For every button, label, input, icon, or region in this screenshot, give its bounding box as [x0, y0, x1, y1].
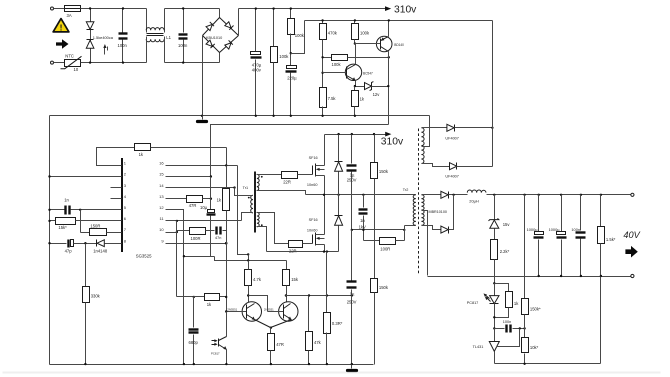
wire: [54, 8, 65, 10]
svg-text:330k: 330k: [91, 294, 101, 299]
svg-text:100k: 100k: [332, 62, 342, 67]
svg-text:20µH: 20µH: [469, 199, 479, 204]
svg-text:4.7k: 4.7k: [253, 277, 262, 282]
capacitor 1000u (first): [538, 195, 540, 232]
svg-text:150k: 150k: [379, 169, 389, 174]
diode 1n4148: [96, 240, 98, 247]
svg-text:0.3R*: 0.3R*: [332, 321, 343, 326]
NTC thermistor 10: [65, 60, 81, 67]
svg-text:47p: 47p: [65, 248, 73, 253]
transistor 2N5551 right: [279, 302, 298, 321]
wire DC plus to rail: [238, 9, 240, 36]
capacitor 10u: [210, 177, 212, 210]
diode top (across upper MOSFET): [338, 135, 340, 162]
resistor 1k (aux): [354, 87, 356, 91]
gate resistor 22R bottom: [257, 213, 289, 244]
wire: [81, 8, 147, 10]
capacitor 100n feedback: [495, 328, 505, 330]
output bottom rail 0V: [428, 276, 631, 278]
pin11 branch down: [176, 221, 178, 297]
resistor 150k lower: [371, 279, 378, 293]
terminal input bottom: [51, 61, 54, 64]
resistor 330k: [85, 244, 87, 287]
svg-text:100n: 100n: [118, 43, 128, 48]
zener 12v: [355, 86, 365, 88]
pin14 row to Tr1: [166, 187, 235, 189]
svg-text:1000µ: 1000µ: [549, 227, 561, 232]
resistor 47k: [308, 296, 310, 332]
svg-text:SG3525: SG3525: [136, 253, 152, 258]
capacitor 1u 250V bottom: [351, 230, 353, 281]
svg-text:100n: 100n: [503, 320, 511, 324]
svg-text:NTC: NTC: [65, 54, 74, 59]
310v top rail: [239, 8, 386, 10]
svg-text:3A: 3A: [67, 13, 72, 18]
resistor 100k (vertical left): [273, 9, 275, 47]
feedback node: [493, 282, 495, 284]
svg-text:1n: 1n: [64, 198, 69, 203]
resistor 150k*: [522, 299, 529, 315]
wire node to sub-rail: [291, 21, 305, 54]
svg-text:10: 10: [159, 227, 164, 232]
svg-text:100k: 100k: [360, 31, 370, 36]
svg-text:100R: 100R: [380, 247, 390, 252]
resistor 47R (pin13): [166, 198, 187, 200]
midpoint row: [306, 194, 416, 196]
Tr2 primary winding: [413, 195, 416, 226]
resistor 15k: [286, 261, 288, 270]
opto LED PC817: [494, 284, 496, 296]
svg-text:47R: 47R: [189, 203, 197, 208]
snubber resistor 100R: [364, 240, 380, 242]
ground bar primary: [202, 116, 204, 120]
svg-text:2.2k*: 2.2k*: [500, 249, 510, 254]
common emitter to 47R: [270, 327, 272, 329]
pin11 row to Tr1 primary bottom: [166, 220, 242, 222]
svg-text:100k: 100k: [279, 54, 289, 59]
resistor 4.7k: [245, 270, 252, 286]
svg-text:7.5k: 7.5k: [328, 96, 337, 101]
resistor 2.2k*: [491, 240, 498, 260]
wire: [54, 62, 65, 64]
capacitor 680p: [193, 297, 195, 328]
bottom middle: diff pair supply row: [215, 257, 287, 261]
bridge rectifier KBU1010: [203, 18, 239, 53]
svg-text:!: !: [60, 23, 63, 33]
capacitor 100n output: [580, 195, 582, 231]
primary bottom bus: [50, 364, 374, 366]
svg-text:1n: 1n: [360, 218, 365, 223]
310v sub-rail: [305, 20, 493, 22]
wire: [81, 62, 147, 64]
resistor 0.3R*: [326, 252, 328, 313]
svg-text:15k: 15k: [291, 277, 299, 282]
svg-text:250V: 250V: [347, 178, 357, 183]
svg-text:MBR10100: MBR10100: [429, 210, 447, 214]
svg-text:220µ: 220µ: [287, 75, 297, 80]
svg-text:12: 12: [159, 205, 164, 210]
pin1 feedback loop + resistor 1k: [97, 148, 135, 166]
resistor 7.5k: [320, 88, 327, 108]
black arrow marker: [56, 39, 69, 49]
svg-text:SF16: SF16: [309, 156, 318, 160]
svg-text:UF4007: UF4007: [445, 136, 459, 140]
resistor 1k (parallel LED): [495, 284, 509, 292]
pin9 row: [166, 243, 227, 245]
resistor 100k (horizontal): [323, 57, 332, 59]
pin16 row: [166, 165, 238, 167]
pin10 stub: [166, 232, 177, 234]
capacitor 1n: [50, 209, 65, 211]
svg-text:16: 16: [159, 161, 164, 166]
diode UF4007 upper: [422, 127, 447, 129]
Tr2 clamp winding: [421, 128, 424, 164]
wire to Tr2 primary bottom: [405, 225, 416, 227]
svg-text:250V: 250V: [347, 299, 357, 304]
svg-text:TL431: TL431: [473, 345, 484, 349]
resistor 15k*: [50, 220, 56, 222]
svg-text:1.5ke400ca: 1.5ke400ca: [93, 35, 114, 40]
svg-text:KBU1010: KBU1010: [206, 36, 222, 40]
Tr1 secondary top: [257, 174, 259, 190]
ground bar secondary of primary side: [351, 365, 353, 369]
svg-text:47k: 47k: [314, 340, 322, 345]
svg-text:150k: 150k: [379, 285, 389, 290]
gate return top: [257, 191, 306, 195]
svg-text:10: 10: [74, 67, 79, 72]
common mode choke L1: [146, 9, 148, 33]
resistor 1.5k*: [600, 195, 602, 227]
clamp return vertical to 310v sub-rail: [492, 21, 494, 167]
capacitor 100n (second): [183, 9, 185, 33]
feedback vertical with 1k resistor: [226, 166, 228, 189]
svg-text:PC817: PC817: [211, 352, 220, 356]
diode MBR10100 lower: [422, 226, 441, 230]
svg-text:15: 15: [159, 172, 164, 177]
pin4 stub: [111, 198, 122, 200]
svg-text:PC817: PC817: [467, 301, 479, 305]
resistor 47R: [268, 334, 275, 351]
svg-text:1n4148: 1n4148: [93, 248, 108, 253]
transistor BD140: [376, 36, 392, 52]
capacitor 1n 1kV: [363, 195, 365, 208]
svg-text:100R: 100R: [191, 236, 201, 241]
clamp winding tap to bus: [422, 116, 430, 147]
svg-text:12v: 12v: [373, 92, 381, 97]
svg-text:40V: 40V: [623, 230, 640, 240]
inductor 20uH: [467, 190, 486, 193]
pin15 row: [166, 176, 211, 178]
zener 15v: [494, 195, 496, 220]
svg-text:SF16: SF16: [309, 218, 318, 222]
svg-text:2N5551: 2N5551: [227, 307, 237, 311]
svg-text:BC547: BC547: [363, 72, 373, 76]
svg-text:47n: 47n: [215, 236, 221, 240]
output arrow: [625, 246, 637, 258]
svg-text:47R: 47R: [276, 342, 284, 347]
svg-text:1µ: 1µ: [350, 291, 355, 296]
resistor 470k: [322, 21, 324, 24]
svg-text:100n: 100n: [178, 43, 188, 48]
warning triangle: [53, 19, 69, 32]
svg-text:1.5k*: 1.5k*: [606, 237, 616, 242]
resistor 100k (vertical right): [290, 9, 292, 19]
svg-text:10k*: 10k*: [530, 345, 539, 350]
gate resistor 22R top: [257, 174, 282, 176]
mid 310v rail: [325, 134, 386, 136]
primary return row: [352, 229, 405, 231]
svg-text:680p: 680p: [189, 340, 199, 345]
svg-text:150k*: 150k*: [530, 307, 541, 312]
svg-text:15k*: 15k*: [58, 225, 67, 230]
current arrow mark: [104, 47, 106, 55]
svg-text:10µ: 10µ: [200, 205, 208, 210]
Tr2 secondary winding: [421, 195, 424, 226]
divider vertical from +40 rail: [524, 195, 526, 299]
terminal output plus: [631, 193, 634, 196]
svg-text:2N5551: 2N5551: [264, 307, 274, 311]
svg-text:10n60: 10n60: [307, 183, 318, 187]
source row bottom MOSFET: [267, 251, 339, 253]
Tr1 primary winding: [251, 195, 253, 213]
vertical join pin5-pin7: [80, 210, 82, 233]
Tr1 secondary bottom: [257, 212, 259, 226]
svg-text:L1: L1: [166, 35, 171, 40]
opto transistor PC817: [225, 310, 227, 312]
TVS 1.5ke400ca: [90, 9, 92, 63]
svg-text:22R: 22R: [283, 180, 291, 185]
fuse F1 3A: [65, 6, 81, 12]
terminal output minus: [631, 274, 634, 277]
wire DC minus down: [202, 36, 204, 116]
svg-text:13: 13: [159, 194, 164, 199]
resistor 100k (to BD140 base): [354, 21, 356, 24]
svg-text:150R: 150R: [90, 223, 100, 228]
secondary ground row: [495, 363, 601, 365]
svg-text:14: 14: [159, 183, 164, 188]
diode UF4007 lower: [422, 164, 450, 167]
Tr2 center tap down to 0V rail: [422, 211, 428, 276]
svg-text:400v: 400v: [252, 67, 262, 72]
transistor 2N5551 left: [242, 302, 261, 321]
IC SG3525: [122, 159, 123, 252]
resistor 100R + capacitor 47n snubber row: [177, 230, 190, 232]
resistor 150k upper: [374, 135, 376, 163]
pin2 wire: [50, 176, 122, 178]
capacitor 100n (first): [122, 9, 124, 33]
12v rail to IC: [211, 125, 389, 177]
svg-text:310v: 310v: [381, 137, 404, 148]
wire bottom after choke: [165, 62, 220, 64]
faint bottom artifact: [3, 372, 661, 374]
svg-text:Tr2: Tr2: [403, 188, 409, 192]
svg-text:15v: 15v: [503, 222, 511, 227]
svg-text:310v: 310v: [394, 5, 417, 16]
diode MBR10100 upper: [422, 194, 441, 196]
capacitor 220u: [290, 52, 292, 54]
pin16 extension down to diff pair: [238, 166, 249, 255]
resistor 150R: [81, 232, 90, 234]
svg-text:1000µ: 1000µ: [527, 227, 539, 232]
resistor 1k (bottom): [194, 296, 205, 298]
output top rail: [487, 194, 631, 196]
capacitor 47p: [50, 243, 67, 245]
resistor 10k*: [522, 338, 529, 353]
terminal input top: [51, 7, 54, 10]
svg-text:1kV: 1kV: [359, 225, 366, 230]
svg-text:Tr1: Tr1: [243, 186, 249, 190]
svg-text:BD140: BD140: [394, 43, 404, 47]
transistor BC547: [345, 64, 361, 80]
capacitor 1u 250V top: [351, 135, 353, 164]
ground trail pin12: [210, 216, 212, 257]
diode bottom (across lower MOSFET): [338, 195, 340, 216]
capacitor 1000u (second): [561, 195, 563, 232]
svg-text:470k: 470k: [328, 31, 338, 36]
left rail: [49, 116, 51, 365]
sense row: [286, 295, 352, 297]
svg-text:100n: 100n: [571, 227, 580, 232]
svg-text:100k: 100k: [295, 33, 305, 38]
pin3 stub: [111, 187, 122, 189]
gate return bottom: [257, 227, 267, 252]
wire top after choke: [165, 8, 220, 10]
TL431: [494, 329, 496, 342]
cross couple left collector to right base: [249, 296, 268, 312]
capacitor 470u 400v: [255, 9, 257, 52]
svg-text:10n60: 10n60: [307, 228, 318, 232]
svg-text:UF4007: UF4007: [445, 175, 459, 179]
primary ground bus: [50, 115, 430, 117]
pin numbers: [124, 161, 165, 244]
